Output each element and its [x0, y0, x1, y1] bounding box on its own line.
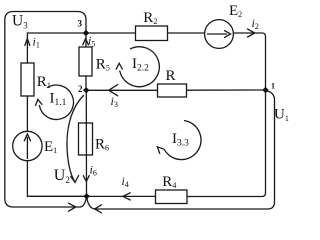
- wire: R4 to bottom node: [87, 195, 156, 197]
- resistor R6 (wire passes through): [24, 31, 230, 159]
- source E2: [205, 20, 234, 49]
- i3 arrowhead: [109, 85, 118, 96]
- node 3 junction: [83, 30, 89, 36]
- loop arc I2.2: [120, 47, 160, 87]
- E1 internal arrow: [24, 134, 30, 159]
- resistor R2: [136, 26, 168, 41]
- wire: R2 to E2: [168, 32, 205, 34]
- wire: node1 down to bottom-right corner to R4: [187, 90, 266, 197]
- wire: R5 to node2: [85, 76, 87, 90]
- loop arc I3.3: [165, 121, 202, 160]
- wire: top from node3 to R2: [86, 32, 136, 34]
- resistor R1: [21, 63, 34, 96]
- i1 arrowhead: [25, 39, 30, 46]
- svg-text:1: 1: [271, 82, 275, 91]
- resistor R: [158, 84, 187, 97]
- i5 arrowhead: [83, 39, 89, 45]
- node 1 junction: [262, 87, 268, 93]
- I3.3 arrowhead: [157, 147, 164, 154]
- wire: node2 down through R6 to bottom node: [85, 90, 87, 196]
- i6 arrowhead: [83, 176, 89, 182]
- U3 outer measurement loop: [5, 12, 86, 208]
- wire: middle node2 to R: [86, 89, 158, 91]
- resistor R4: [156, 190, 188, 204]
- U3 loop arrowhead: [69, 203, 76, 211]
- svg-text:R: R: [166, 68, 176, 84]
- bottom node junction: [83, 193, 89, 199]
- E2 internal arrow: [208, 31, 231, 38]
- wire: R to node1: [187, 89, 266, 91]
- resistor R5: [79, 47, 92, 76]
- I1.1 arrowhead: [36, 99, 42, 105]
- i2 arrowhead: [248, 29, 255, 37]
- wire: E1 bottom to bottom-left corner to bottom node: [27, 161, 86, 197]
- loop arc I1.1: [39, 85, 73, 119]
- U1 loop arrowhead: [95, 205, 102, 213]
- node 2 junction: [83, 87, 89, 93]
- svg-text:3: 3: [78, 19, 83, 29]
- U2 curved voltage arrow: [67, 96, 84, 182]
- i4 arrowhead: [123, 193, 130, 200]
- wire: E2 to top-right corner down to node1: [233, 33, 265, 90]
- U2 arrowhead: [71, 176, 79, 183]
- U1 measurement loop: [87, 91, 275, 209]
- svg-text:2: 2: [78, 84, 83, 94]
- I2.2 arrowhead: [116, 63, 122, 69]
- wire: node3 down to R5: [85, 33, 87, 47]
- source E1: [13, 131, 42, 160]
- wire: R1 bottom to E1 top: [26, 96, 28, 131]
- wire: top left from node3 to left corner: [27, 33, 86, 63]
